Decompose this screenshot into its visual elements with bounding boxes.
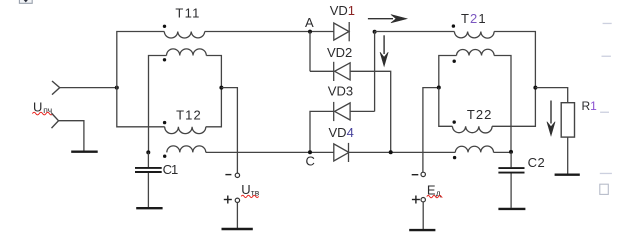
resistor R1 [561,103,574,137]
T21 primary polarity dot [452,24,455,27]
T12 primary polarity dot [163,121,166,124]
ground (Uтв) [222,228,253,230]
wire: input junction down to T12 primary [117,88,165,127]
svg-text:C1: C1 [163,162,179,177]
ground (C1) [136,207,162,209]
input terminal (upper) chevron [52,81,60,95]
transformer T21 primary winding [454,32,494,39]
wire: VD4 cathode to T22 secondary [349,151,456,153]
wire: lower input to ground [59,121,84,151]
wire: VD1 junction riser down to VD3 anode [374,32,376,112]
wire: node A branch to VD2 cathode [310,70,334,72]
svg-text:T11: T11 [175,6,199,21]
input terminal (lower) chevron [52,113,59,128]
label Uтв [241,182,259,197]
transformer T21 secondary winding [457,49,495,55]
node A [308,30,312,34]
svg-text:T21: T21 [461,11,486,26]
terminal minus (Uтв) [235,173,239,177]
current arrow (ring, downward) [380,35,388,66]
wire: junction down to T22 primary left [439,88,453,127]
T21 secondary polarity dot [453,60,456,63]
document margin dash 2 [602,56,611,57]
wire: input junction up to T11 primary [117,32,165,88]
capacitor C1 [135,168,162,172]
wire: VD2 anode right riser down to C row [350,71,391,152]
svg-text:VD1: VD1 [330,3,355,18]
minus sign (Uтв) [225,174,231,176]
svg-text:C2: C2 [528,155,545,170]
node: input junction [115,86,119,90]
ground (C2) [498,208,525,210]
plus sign (Ед) [412,196,420,204]
diode VD1 [334,22,349,41]
transformer T12 secondary winding [167,146,206,153]
wire: node A down to VD2 cathode branch [309,32,311,72]
wire: R1 bottom to ground [567,137,569,174]
node: R1 junction [533,86,537,90]
svg-text:T12: T12 [176,108,201,123]
wire: R1 junction to resistor top [535,88,567,103]
document margin dash 4 [600,173,612,174]
transformer T22 primary winding [452,126,492,133]
wire: C2 node to top plate [510,152,512,167]
wire: T21 secondary right riser down to C2 node [494,56,511,153]
svg-text:VD4: VD4 [329,125,354,140]
T11 primary polarity dot [163,25,166,28]
svg-text:VD2: VD2 [327,45,352,60]
diode VD3 [334,102,350,121]
wire: C1 node to top plate [147,152,149,167]
wire: VD3 cathode riser down to node C [310,111,334,152]
terminal minus (Ед) [421,172,425,176]
node: T11 sec / T12 pri carrier junction [219,86,223,90]
ground (Ед) [409,229,435,231]
document margin dash 3 [600,112,609,113]
wire: T22 secondary right to C2 node [494,151,512,153]
transformer T22 secondary winding [455,146,493,152]
plus sign (Uтв) [224,196,232,204]
svg-text:пч: пч [43,105,52,115]
wire: VD3 anode to VD1 junction riser [350,110,375,112]
spellcheck squiggle under Ед [427,195,443,197]
diode VD2 [334,62,350,81]
terminal plus (Ед) [421,198,425,202]
svg-text:VD3: VD3 [328,83,353,98]
wire: VD1 junction to T21 primary [375,31,455,33]
document margin dash 1 [603,23,612,24]
current arrow (through R1, downward) [547,101,555,136]
svg-text:C: C [306,154,315,169]
wire: T11 primary to node A / VD1 [205,31,334,33]
wire: right carrier junction stub to Ед minus terminal [423,88,439,173]
spellcheck squiggle under Uпч [32,112,52,115]
T22 primary polarity dot [453,120,456,123]
capacitor C2 [498,168,524,173]
transformer T11 primary winding [164,32,204,38]
wire: T11 secondary left riser down to C1 node [149,56,167,153]
wire: T21 secondary left riser down to Ед junction [439,56,457,88]
svg-text:A: A [305,15,314,30]
ground (R1) [555,173,580,175]
node: C2 junction [509,150,513,154]
svg-text:R1: R1 [582,99,598,113]
node: T21 sec / T22 pri junction [437,86,441,90]
node: VD4 / T22 junction [389,150,393,154]
transformer T12 primary winding [165,127,206,134]
T11 secondary polarity dot [163,58,166,61]
embedded-object anchor icon (top-left, cropped) [19,0,32,3]
node: C1 junction [146,150,150,154]
terminal plus (Uтв) [235,198,239,202]
T22 secondary polarity dot [453,156,456,159]
wire: T11 secondary right riser down to carrier junction [206,56,221,88]
current arrow (output, horizontal) [368,15,407,23]
wire: C1 bottom plate to ground [147,173,149,207]
wire: carrier junction stub to Uтв minus terminal [221,88,237,173]
wire: T21 primary right riser down to R1 junction [494,32,535,88]
node: VD1 cathode junction [373,30,377,34]
wire: upper input to input junction [60,87,117,89]
wire: R1 junction riser down to T22 primary right [492,88,535,127]
ground (input) [71,150,98,152]
T12 secondary polarity dot [163,155,166,158]
wire: C2 bottom plate to ground [510,174,512,208]
svg-text:T22: T22 [467,107,492,122]
label Uпч [33,99,52,114]
minus sign (Ед) [412,174,419,176]
node C [308,150,312,154]
wire: T12 primary right riser up to carrier junction [206,88,222,127]
transformer T11 secondary winding [167,49,207,56]
wire: Uтв plus to ground [236,203,238,229]
label Ед [427,183,441,198]
diode VD4 [334,143,349,162]
spellcheck squiggle under Uтв [241,195,258,197]
wire: bottom row T12 secondary to node C [206,151,334,153]
wire: Ед plus to ground [422,202,424,229]
document margin checkbox mark [600,184,609,194]
